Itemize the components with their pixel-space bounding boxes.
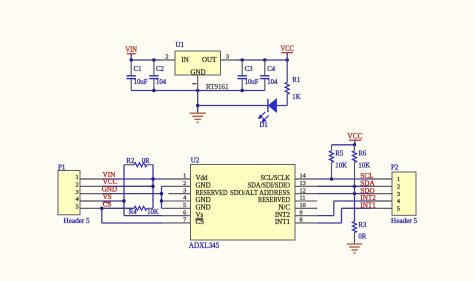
svg-text:10K: 10K [358, 163, 370, 170]
P1 pin 2 [80, 185, 102, 187]
svg-text:10K: 10K [147, 209, 159, 216]
U2 pin 8 INT1 [295, 222, 317, 224]
capacitor C4 104 [264, 60, 266, 75]
svg-text:2: 2 [76, 182, 79, 189]
wire INT2 U2.9 jog to P2.4 [317, 215, 334, 217]
node C4 top junction [263, 58, 266, 61]
svg-text:INT1: INT1 [360, 201, 376, 209]
svg-text:R3: R3 [358, 222, 367, 229]
svg-text:R6: R6 [358, 151, 367, 158]
svg-text:VCC: VCC [347, 131, 363, 140]
svg-text:6: 6 [183, 209, 186, 216]
wire U2 pin3 RESERVED stub [168, 193, 190, 195]
capacitor C1 10uF [130, 60, 132, 75]
svg-text:2: 2 [397, 183, 400, 190]
svg-text:C4: C4 [267, 66, 276, 73]
wire INT1 U2.8 jog to P2.5 [317, 222, 341, 224]
node C2 top junction [152, 58, 155, 61]
wire VIN stem [130, 54, 132, 60]
node vertical/VIN junction [151, 177, 154, 180]
node VS junction [122, 199, 125, 202]
wire row CS P1.5 to R4 [102, 207, 134, 209]
wire R1 to LED [277, 105, 288, 107]
U2 pin 14 SCL [295, 178, 317, 180]
wire U2 pin11 RESERVED stub [295, 200, 317, 202]
capacitor C2 104 [153, 60, 155, 75]
wire U1 GND pin [197, 75, 199, 91]
op-amp U1 regulator RT9161 body [175, 51, 221, 75]
wire VCC stem [286, 53, 288, 60]
svg-text:1: 1 [76, 174, 79, 181]
node tee junction [353, 143, 356, 146]
wire U2 pin10 N/C stub [295, 207, 317, 209]
capacitor C3 10uF [241, 60, 243, 75]
U2 pin 2 GND [162, 185, 191, 187]
svg-text:1: 1 [397, 176, 400, 183]
node C3 bottom junction [241, 89, 244, 92]
P2 pin 3 [370, 193, 392, 195]
svg-text:R5: R5 [335, 151, 344, 158]
resistor R2 0R [124, 164, 134, 166]
wire row VIN P1.1 to U2.1 Vdd [102, 178, 163, 180]
node R6/SDA junction [353, 185, 356, 188]
power port VIN [127, 53, 136, 55]
wire row VS P1.4 to R2 vertical [102, 200, 124, 202]
svg-text:U1: U1 [176, 41, 185, 49]
P1 pin 1 [80, 178, 102, 180]
U1 pin 3 OUT [221, 59, 236, 61]
svg-text:10uF: 10uF [245, 79, 259, 86]
node VIN/C1 junction [130, 58, 133, 61]
svg-text:ADXL345: ADXL345 [189, 240, 220, 250]
svg-text:VCC: VCC [280, 44, 294, 53]
svg-text:R1: R1 [292, 77, 300, 84]
node R5/SCL junction [330, 177, 333, 180]
svg-text:1: 1 [183, 173, 186, 180]
wire VCC right stem [354, 140, 356, 145]
U1 pin number 1 mark [192, 83, 196, 85]
diode D1 LED [269, 99, 277, 112]
U2 pin6 Vs underline [196, 217, 203, 219]
U2 pin 7 CS [163, 222, 191, 224]
svg-text:3: 3 [397, 191, 400, 198]
svg-text:104: 104 [156, 79, 167, 86]
svg-text:P1: P1 [58, 163, 66, 171]
svg-text:2: 2 [183, 180, 186, 187]
svg-text:R2: R2 [126, 158, 135, 165]
P2 pin 2 [370, 185, 392, 187]
svg-text:D1: D1 [260, 122, 268, 129]
P1 pin 5 [80, 207, 102, 209]
svg-text:C2: C2 [156, 66, 165, 73]
node CS junction [100, 207, 103, 210]
U1 pin 2 IN [161, 59, 176, 61]
wire ground stem [197, 91, 199, 114]
U2 pin 9 INT2 [295, 215, 317, 217]
wire LED cathode to ground rail [198, 105, 268, 107]
node R3/SDO junction [353, 192, 356, 195]
wire U2 GND bus vertical [161, 186, 163, 208]
wire input rail [131, 59, 160, 61]
svg-text:C3: C3 [245, 66, 254, 73]
wire pull-up vertical R2/R4 to VIN VCC [152, 165, 154, 209]
wire row SCL to P2.1 [317, 178, 370, 180]
node GND bus row3 junction [160, 192, 163, 195]
svg-text:VIN: VIN [125, 45, 137, 54]
U2 pin 5 GND [162, 207, 191, 209]
svg-text:Header 5: Header 5 [391, 217, 418, 225]
U2 pin 6 Vs [163, 215, 191, 217]
svg-text:5: 5 [76, 204, 79, 211]
op-amp U2 ADXL345 body [191, 165, 296, 241]
svg-text:5: 5 [183, 202, 186, 209]
U2 pin 12 SDO [295, 193, 317, 195]
svg-text:P2: P2 [391, 164, 399, 172]
svg-text:OUT: OUT [202, 56, 217, 64]
svg-text:Header 5: Header 5 [64, 217, 91, 225]
svg-text:IN: IN [181, 56, 188, 64]
connector P2 body [392, 172, 416, 215]
resistor R4 10K [134, 206, 147, 210]
wire output rail [235, 59, 287, 61]
svg-text:1K: 1K [292, 94, 300, 101]
U2 pin 1 Vdd [163, 178, 191, 180]
svg-text:3: 3 [76, 189, 79, 196]
wire row VCC P1.2 to pull-up vertical [102, 185, 153, 187]
svg-text:R4: R4 [129, 209, 138, 216]
node C2 bottom junction [152, 89, 155, 92]
wire R5/R6 tee [332, 144, 356, 146]
resistor R1 1K [286, 60, 288, 82]
ground GND1 [190, 112, 206, 114]
svg-text:3: 3 [226, 53, 229, 60]
wire CS drop to U2 pin7 [101, 208, 103, 223]
power port VCC right [349, 139, 361, 141]
wire row SDA to P2.2 [317, 185, 370, 187]
ground GND2 [347, 243, 363, 245]
node VCC/R1 junction [286, 58, 289, 61]
svg-text:2: 2 [165, 53, 168, 60]
svg-text:7: 7 [183, 217, 186, 224]
node C3 top junction [241, 58, 244, 61]
P2 pin 4 [370, 200, 392, 202]
P2 pin 1 [370, 178, 392, 180]
svg-text:0R: 0R [142, 158, 150, 165]
U2 pin7 CS overbar [196, 219, 203, 221]
node vertical/VCC junction [151, 185, 154, 188]
wire U2 pin4 stub [162, 200, 191, 202]
svg-text:3: 3 [183, 187, 186, 194]
svg-text:C1: C1 [134, 66, 142, 73]
resistor R6 10K [354, 145, 356, 151]
wire VS vertical to U2 pin6 [123, 165, 125, 216]
svg-text:INT1: INT1 [275, 218, 291, 226]
P2 pin 5 [370, 207, 392, 209]
svg-text:5: 5 [397, 205, 400, 212]
P1 pin 3 [80, 193, 102, 195]
svg-text:104: 104 [267, 79, 278, 86]
power port VCC top [281, 52, 293, 54]
resistor R5 10K [331, 145, 333, 151]
svg-text:RT9161: RT9161 [206, 83, 229, 91]
svg-text:VS: VS [103, 193, 112, 201]
wire row GND P1.3 to U2 GND vertical [102, 193, 162, 195]
node LED return junction [196, 104, 199, 107]
resistor R3 0R [352, 222, 356, 233]
svg-text:U2: U2 [191, 157, 200, 165]
svg-text:10K: 10K [335, 163, 347, 170]
U2 pin 13 SDA [295, 185, 317, 187]
svg-text:0R: 0R [358, 234, 366, 241]
wire capacitor ground rail [131, 90, 265, 92]
LED arrows [259, 112, 269, 122]
svg-text:CS: CS [196, 218, 205, 226]
svg-text:10uF: 10uF [134, 79, 148, 86]
svg-text:CS: CS [103, 201, 112, 209]
wire SDA to R3 [354, 186, 356, 221]
node GND bus row4 junction [160, 199, 163, 202]
node U1 GND junction [196, 89, 199, 92]
wire row SDO to P2.3 [317, 193, 370, 195]
P1 pin 4 [80, 200, 102, 202]
connector P1 body [58, 171, 80, 215]
